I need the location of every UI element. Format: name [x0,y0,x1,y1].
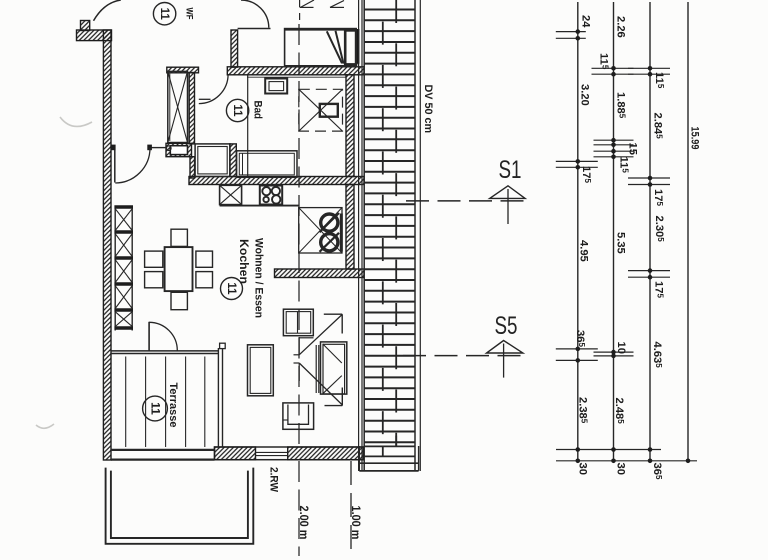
svg-text:15: 15 [627,143,639,155]
door stop pin [167,146,172,151]
bottom ticks on line C [648,447,653,452]
fridge X-box [220,185,242,204]
wardrobe dashed outline top [299,0,301,7]
roof-height dashed line 2.00m (vertical, full height) [298,24,300,447]
kitchen wall band horizontal [189,177,364,185]
svg-text:15.99: 15.99 [689,127,701,150]
shower tray / cupboard in hall [195,144,230,177]
right wall of Bad (hatched) [346,75,354,177]
balcony strip bottom structure [364,445,415,447]
section marker S1 triangle [490,186,525,199]
section S5 dash-dot axis line [403,355,525,357]
Bad inner top line [247,76,346,78]
shower X diagonals [299,89,343,131]
terrace corner post [217,348,219,447]
WF duct column with X-cross [168,71,188,142]
svg-text:Kochen: Kochen [237,239,250,284]
balcony outer rails (right) [419,0,421,471]
stove with 4 burners [260,186,282,205]
outer wall: entry notch block [81,21,90,31]
shower dashed square [299,89,343,131]
window glazing lines in south wall [256,451,288,453]
section marker S1 stem [507,189,509,224]
kitchen sink unit with two bowls [299,208,342,253]
dimension bottom datum lines [556,449,661,451]
section marker S5 triangle [487,341,523,354]
washing machine in niche [170,146,187,155]
balcony grid right edge [414,0,416,471]
dining table [165,247,193,291]
room circle 11 WF [153,3,175,25]
bed thick head edge [285,28,357,31]
room circle 11 Essen [221,278,243,300]
coffee table [248,345,274,396]
south wall band of living room (with window gap) [215,447,364,460]
black wall pier next to bed [355,29,359,64]
Bad door arc [199,74,228,103]
entry door arc [94,0,121,21]
svg-text:11: 11 [231,104,243,117]
dining chairs [171,229,187,246]
terrace deck board lines [125,357,127,448]
tick cluster 15/115 on line B [594,139,634,141]
svg-text:Terrasse: Terrasse [167,383,179,428]
right wall living (hatched) [346,185,354,270]
terrace bottom edge double line [111,449,215,451]
ticks 115 on line B [592,67,634,69]
bottom ticks on line B [611,447,616,452]
wall chunk between cupboard and bathtub [230,144,236,177]
armchair lower [283,403,314,429]
armchair upper [283,309,313,336]
ticks 365 on line A [556,348,598,350]
bed blanket fold diagonals [327,31,342,63]
sofa bottom corner bracket [325,405,343,407]
kitchen counter front line [220,205,299,207]
svg-text:2.RW: 2.RW [268,467,280,492]
shower drain block [320,104,338,117]
terrace door swing arc [149,322,177,350]
wall band over WF duct [167,67,199,73]
balcony grid horizontal treads [364,9,415,11]
svg-text:24: 24 [580,15,592,28]
svg-text:S1: S1 [499,156,522,184]
sofa diagonals [299,315,342,355]
wall band at balcony door [275,269,365,278]
section S1 dash-dot axis line [406,200,528,202]
svg-text:10: 10 [615,342,627,354]
svg-text:2.00 m: 2.00 m [297,506,309,540]
balcony grid left edge [363,0,365,471]
ticks 175 on line C [628,177,670,179]
room circle 11 Bad [226,99,248,121]
faint scan squiggle bottom-left [36,424,54,428]
balcony wall rails (left) [358,0,360,471]
svg-text:Wohnen / Essen: Wohnen / Essen [253,238,265,318]
faint scan mark left [60,117,92,126]
hall door stub line [152,147,167,149]
wall between niche and shower tray [190,157,195,178]
hall door leaf (open) [114,150,116,183]
sofa corner bracket top-right [324,313,342,315]
Bad west wall line [247,75,249,176]
ticks 115 on line C [628,67,670,69]
svg-text:S5: S5 [495,312,518,340]
dimension line B (5.35 chain) [613,2,615,461]
sofa seat double rectangle [321,342,347,394]
washer niche wall block [166,143,192,156]
outer wall: left vertical wall [103,30,111,460]
ticks 175 lower on line C [628,270,670,272]
left bracket marks [294,354,300,356]
svg-text:DV 50 cm: DV 50 cm [422,85,434,134]
bathtub [237,151,297,178]
bed outline [285,29,357,67]
hall door swing arc [115,148,150,183]
lower terrace open rectangle [106,468,254,544]
bottom tick on line D [686,459,691,464]
ticks 10 on line B [594,351,634,353]
ticks 175 on line A [556,160,598,162]
balcony grid vertical ticks [395,0,397,23]
svg-text:WF: WF [185,8,195,20]
WF east wall (hatched) [189,73,194,144]
svg-text:Bad: Bad [252,101,264,120]
ticks 24 on line A [556,31,586,33]
bed headboard block [345,30,356,64]
room circle 11 Terrasse [143,396,168,421]
svg-text:30: 30 [615,463,627,475]
wall band between Bad and kitchen corridor [227,67,364,75]
svg-text:11: 11 [158,8,170,21]
hall door jamb squares [111,145,116,151]
dimension line D (15.99 overall) [687,2,689,461]
svg-text:11: 11 [149,402,163,415]
partition wall WF/Bad vertical [231,30,238,67]
svg-text:2.26: 2.26 [615,16,627,38]
svg-text:5.35: 5.35 [615,232,627,254]
1.00m dashed height line [350,461,352,556]
washbasin in Bad [265,79,287,94]
bedroom door arc [241,0,269,28]
svg-text:3.20: 3.20 [579,84,591,106]
svg-text:11: 11 [225,282,237,295]
terrace door leaf [148,322,150,351]
svg-text:4.95: 4.95 [578,240,590,262]
svg-text:30: 30 [577,463,589,475]
bedroom door jamb line [238,28,271,30]
dimension line A (4.95 chain) [577,2,579,461]
bottom ticks on line A [576,447,581,452]
dimension line C (4.635 chain) [649,2,651,461]
shelf column with X-cells along left wall [114,206,116,331]
outer wall: top-left horizontal band [77,30,112,41]
section marker S5 stem [503,344,505,378]
terrace railing top double line [111,350,218,352]
